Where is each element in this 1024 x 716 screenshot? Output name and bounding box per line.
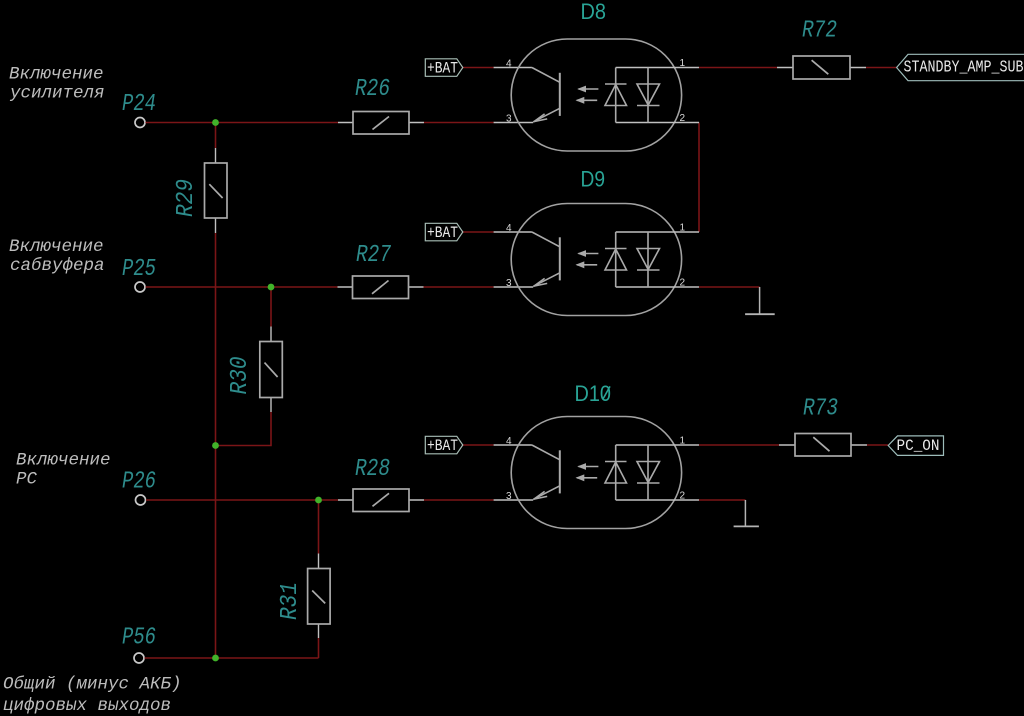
- ground (D9 pin 2): [745, 287, 775, 314]
- resistor R27: [338, 242, 424, 299]
- wire R31 bottom down to P56 row: [318, 638, 320, 658]
- resistor R30: [227, 327, 282, 413]
- resistor R73: [779, 396, 867, 456]
- svg-text:PC: PC: [16, 469, 38, 489]
- svg-text:+BAT: +BAT: [427, 224, 458, 242]
- resistor R31: [277, 554, 330, 639]
- ground (D10 pin 2): [734, 500, 759, 526]
- wire +BAT to D10 pin 4: [463, 444, 494, 446]
- wire junction P25 down to R30: [270, 287, 272, 327]
- svg-text:2: 2: [680, 278, 686, 289]
- svg-text:+BAT: +BAT: [427, 59, 458, 77]
- wire R28 to D10 pin 3: [424, 499, 494, 501]
- resistor R28: [338, 456, 424, 512]
- svg-text:1: 1: [680, 436, 686, 447]
- wire D10 pin 2 to ground: [699, 499, 745, 501]
- svg-text:P56: P56: [122, 625, 156, 652]
- junction at left bus / R30 bottom: [212, 442, 219, 449]
- svg-text:2: 2: [680, 491, 686, 502]
- svg-text:R31: R31: [277, 582, 304, 620]
- global label PC_ON: [888, 436, 943, 456]
- svg-text:4: 4: [506, 223, 512, 234]
- svg-text:Включение: Включение: [16, 450, 111, 470]
- svg-text:3: 3: [506, 114, 512, 125]
- wire P25 to R27: [146, 286, 338, 288]
- optocoupler D9: [494, 167, 699, 316]
- power flag +BAT (D10): [425, 436, 463, 455]
- text note "Общий (минус АКБ) цифровых выходов": [3, 675, 182, 716]
- junction at P24 / R29: [212, 119, 219, 126]
- svg-text:R29: R29: [173, 179, 200, 217]
- wire +BAT to D9 pin 4: [463, 231, 494, 233]
- svg-text:усилителя: усилителя: [9, 83, 105, 103]
- svg-text:R26: R26: [355, 76, 390, 103]
- wire R29 bottom down the left bus to P56 row: [215, 233, 217, 658]
- svg-text:R73: R73: [803, 396, 838, 423]
- wire D8 pin 1 to R72: [699, 67, 777, 69]
- svg-text:P26: P26: [122, 469, 156, 496]
- svg-text:R28: R28: [355, 456, 390, 483]
- svg-text:+BAT: +BAT: [427, 437, 458, 455]
- resistor R29: [173, 148, 227, 233]
- wire +BAT to D8 pin 4: [463, 67, 494, 69]
- wire P24 to R26: [146, 122, 339, 124]
- optocoupler D8: [494, 0, 699, 151]
- text note "Включение усилителя": [9, 65, 105, 104]
- wire R73 to PC_ON label: [867, 444, 888, 446]
- junction at P25 / R30: [268, 284, 275, 291]
- wire R26 to D8 pin 3: [424, 122, 494, 124]
- svg-text:2: 2: [680, 113, 686, 124]
- svg-text:1: 1: [680, 58, 686, 69]
- svg-text:STANDBY_AMP_SUB: STANDBY_AMP_SUB: [904, 58, 1024, 77]
- svg-text:R27: R27: [356, 242, 391, 269]
- wire D9 pin 2 to ground: [699, 286, 760, 288]
- power flag +BAT (D8): [425, 59, 463, 78]
- junction at P26 / R31: [315, 497, 322, 504]
- wire P56 row: [145, 657, 319, 659]
- port P25: [122, 256, 156, 292]
- svg-text:P25: P25: [122, 256, 156, 283]
- wire R72 to STANDBY_AMP_SUB label: [866, 67, 897, 69]
- wire junction P24 down to R29: [215, 123, 217, 149]
- optocoupler D10: [494, 381, 699, 529]
- wire junction P26 down to R31: [318, 500, 320, 554]
- global label STANDBY_AMP_SUB: [897, 54, 1024, 80]
- text note "Включение PC": [16, 450, 111, 489]
- svg-text:R30: R30: [227, 357, 254, 395]
- resistor R72: [777, 18, 866, 79]
- svg-text:P24: P24: [122, 91, 156, 118]
- port P24: [122, 91, 156, 128]
- wire P26 to R28: [146, 499, 338, 501]
- wire R27 to D9 pin 3: [424, 286, 494, 288]
- svg-text:4: 4: [506, 436, 512, 447]
- junction at P56 / left bus: [212, 655, 219, 662]
- svg-text:Включение: Включение: [9, 237, 104, 257]
- svg-text:R72: R72: [802, 18, 837, 45]
- wire D10 pin 1 to R73: [699, 444, 779, 446]
- resistor R26: [338, 76, 424, 134]
- wire R30 bottom jog to left bus: [216, 412, 272, 446]
- power flag +BAT (D9): [425, 223, 463, 242]
- svg-text:цифровых выходов: цифровых выходов: [3, 696, 171, 716]
- port P56: [122, 625, 156, 664]
- port P26: [122, 469, 156, 506]
- svg-text:PC_ON: PC_ON: [897, 437, 940, 455]
- wire D8 pin 2 down to D9 pin 1: [698, 123, 700, 233]
- svg-text:Общий (минус АКБ): Общий (минус АКБ): [3, 675, 182, 695]
- svg-text:3: 3: [506, 278, 512, 289]
- svg-text:4: 4: [506, 59, 512, 70]
- svg-text:D8: D8: [581, 0, 607, 24]
- text note "Включение сабвуфера": [9, 237, 105, 276]
- svg-text:1: 1: [680, 223, 686, 234]
- svg-text:Включение: Включение: [9, 65, 104, 85]
- svg-text:сабвуфера: сабвуфера: [10, 256, 105, 276]
- svg-text:3: 3: [506, 491, 512, 502]
- svg-text:D9: D9: [581, 167, 606, 192]
